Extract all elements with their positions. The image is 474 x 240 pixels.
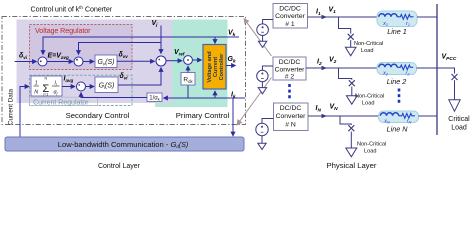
svg-text:Load: Load: [364, 149, 376, 155]
svg-text:Load: Load: [362, 101, 374, 107]
svg-text:# 2: # 2: [285, 74, 295, 81]
wire C5 to Gi: [86, 86, 95, 88]
critical load branch: [437, 68, 455, 74]
low-bandwidth communication bar: [5, 137, 244, 151]
converter box N: [274, 103, 309, 131]
svg-text:1/αk: 1/αk: [149, 96, 159, 102]
summing node C5: [77, 82, 86, 91]
summing node C3: [156, 56, 166, 66]
ellipsis dots between line blocks: [398, 89, 401, 104]
svg-text:# N: # N: [285, 122, 296, 129]
ellipsis dots between converter boxes: [288, 84, 291, 99]
row1 non-critical branch: [339, 17, 351, 34]
svg-text:V2: V2: [329, 57, 337, 65]
source 1 ground arrow: [262, 36, 264, 42]
svg-text:Current Data: Current Data: [8, 88, 15, 125]
svg-text:Gv(S): Gv(S): [97, 59, 114, 67]
source N ground arrow: [261, 136, 263, 144]
svg-text:VPCC: VPCC: [442, 54, 457, 62]
svg-text:Gk: Gk: [228, 56, 236, 64]
comm link D1: [244, 19, 272, 56]
wire Vj vertical into node C3: [160, 26, 162, 54]
svg-text:Converter: Converter: [276, 113, 307, 120]
block Gi(S): [95, 77, 118, 93]
wire C4 to controller: [192, 59, 201, 61]
svg-text:V1: V1: [329, 7, 337, 15]
wire Vk drop into controller top: [214, 37, 216, 44]
svg-text:Non-Critical: Non-Critical: [354, 41, 383, 47]
block Gv(S): [95, 55, 117, 68]
converter box 2: [273, 57, 306, 80]
controller orange box: [203, 45, 226, 90]
wire row1 output: [308, 16, 378, 18]
wire Gi output delta-vi to C3 bottom: [118, 68, 161, 86]
rowN non-critical branch: [340, 116, 351, 125]
converter box 1: [273, 4, 308, 29]
wire Ik line: [164, 97, 246, 99]
line N block: [379, 111, 419, 123]
svg-text:j=1: j=1: [42, 93, 48, 97]
wire Gk output arrow: [226, 65, 236, 67]
svg-text:Converter: Converter: [275, 67, 306, 74]
svg-text:Converter: Converter: [275, 13, 306, 20]
wire Ik branch up into controller bottom: [214, 91, 216, 98]
summing node C1: [38, 57, 47, 66]
voltage regulator dashed box: [30, 25, 133, 70]
svg-text:N: N: [44, 77, 47, 81]
svg-text:Load: Load: [361, 48, 373, 54]
source N circle: [262, 119, 274, 124]
svg-text:Line 1: Line 1: [387, 27, 407, 36]
svg-text:I2: I2: [317, 59, 322, 67]
svg-text:# 1: # 1: [285, 21, 295, 28]
svg-text:Control Layer: Control Layer: [98, 163, 141, 170]
line 1 block: [377, 11, 417, 27]
wire row1 to bus: [417, 16, 437, 18]
svg-text:Critical: Critical: [448, 116, 470, 123]
wire rowN output: [308, 115, 379, 117]
wire Ik branch down to communication bar: [232, 98, 234, 136]
wire C3 to C4: [166, 60, 182, 62]
svg-text:Non-Critical: Non-Critical: [357, 142, 386, 148]
svg-text:Control unit of kth Conerter: Control unit of kth Conerter: [31, 5, 113, 14]
current regulator dashed box: [30, 75, 133, 105]
current regulator label: [30, 97, 98, 105]
wire Rdk to C4: [187, 66, 189, 73]
svg-text:N: N: [34, 90, 38, 96]
wire row2 to bus: [417, 67, 438, 69]
svg-text:Secondary Control: Secondary Control: [66, 111, 130, 120]
wire Vk feedback line: [43, 37, 239, 54]
svg-text:Line 2: Line 2: [387, 77, 407, 86]
svg-text:I1: I1: [316, 9, 321, 17]
svg-text:Load: Load: [451, 125, 467, 132]
averaging block: [31, 76, 62, 96]
wire Vj branch into node C2: [79, 43, 162, 55]
control layer outer dash-dot border: [2, 17, 246, 125]
secondary control lavender background: [17, 20, 173, 104]
wire 1/alpha-k to C5 bottom: [81, 93, 147, 98]
svg-text:DC/DC: DC/DC: [279, 59, 301, 66]
summing node C2: [74, 57, 83, 66]
svg-text:Primary Control: Primary Control: [176, 111, 230, 120]
block 1/alpha-k: [147, 93, 162, 102]
svg-text:Line N: Line N: [387, 125, 409, 134]
wire Ik branch up into Rdk bottom: [187, 85, 189, 98]
svg-text:Voltage Regulator: Voltage Regulator: [35, 26, 91, 35]
line 2 block: [377, 63, 417, 75]
svg-text:1: 1: [35, 81, 38, 87]
svg-text:Gi(S): Gi(S): [99, 83, 115, 91]
wire delta-vi input into node C1: [15, 61, 37, 63]
svg-text:DC/DC: DC/DC: [280, 105, 302, 112]
primary control teal background: [155, 20, 228, 108]
source 2 circle: [262, 66, 273, 70]
wire rowN to bus: [419, 115, 438, 117]
svg-text:Non-Critical: Non-Critical: [355, 94, 384, 100]
wire C1 to C2: [47, 61, 73, 63]
svg-text:DC/DC: DC/DC: [279, 5, 301, 12]
comm link D2: [237, 78, 272, 125]
wire avg to C5: [62, 86, 75, 88]
bus line: [436, 4, 438, 135]
svg-text:IN: IN: [316, 105, 322, 113]
wire row2 output: [306, 67, 377, 69]
wire C2 to Gv: [83, 61, 94, 63]
svg-text:Physical Layer: Physical Layer: [327, 161, 377, 170]
row2 non-critical branch: [339, 68, 352, 80]
wire Gv to C3: [117, 60, 155, 62]
svg-text:Controller: Controller: [219, 53, 225, 81]
source 2 ground arrow: [261, 82, 263, 88]
wire from communication bar up into averaging block: [20, 87, 29, 138]
block Rdk: [181, 73, 195, 86]
source 1 circle: [263, 20, 273, 24]
svg-text:VN: VN: [330, 104, 339, 112]
svg-text:Low-bandwidth Communication -: Low-bandwidth Communication - Gd(S): [58, 140, 188, 149]
summing node C4: [184, 56, 193, 65]
svg-text:Current Regulator: Current Regulator: [33, 98, 89, 107]
